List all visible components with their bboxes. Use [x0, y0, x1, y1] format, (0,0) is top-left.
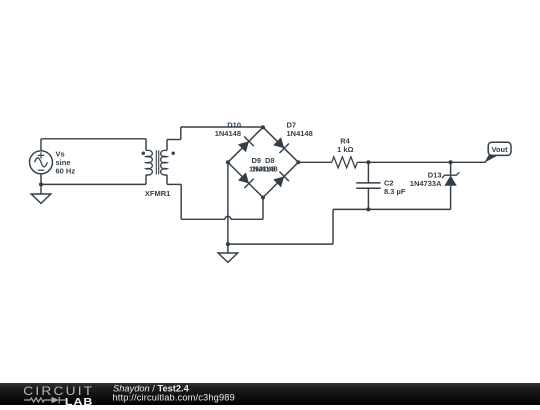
svg-text:XFMR1: XFMR1 — [145, 189, 170, 198]
svg-text:http://circuitlab.com/c3hg989: http://circuitlab.com/c3hg989 — [113, 392, 235, 402]
svg-text:Vout: Vout — [492, 145, 508, 154]
svg-text:1N4148: 1N4148 — [251, 164, 277, 173]
svg-text:1 kΩ: 1 kΩ — [337, 145, 353, 154]
svg-text:8.3 µF: 8.3 µF — [384, 187, 406, 196]
svg-text:1N4148: 1N4148 — [287, 129, 313, 138]
svg-text:LAB: LAB — [65, 397, 94, 405]
svg-text:60 Hz: 60 Hz — [56, 167, 76, 176]
svg-text:1N4148: 1N4148 — [215, 129, 241, 138]
svg-text:1N4733A: 1N4733A — [410, 179, 442, 188]
